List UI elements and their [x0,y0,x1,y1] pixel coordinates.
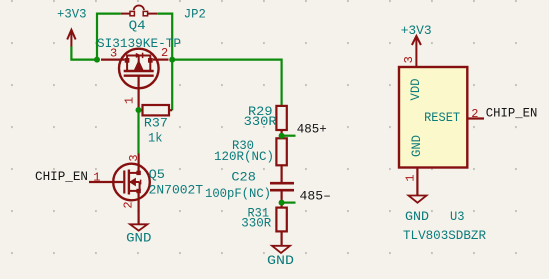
svg-text:CHIP_EN: CHIP_EN [486,105,538,120]
junction A [94,57,100,63]
junction C (Q4 gate node) [136,107,142,113]
svg-text:100pF(NC): 100pF(NC) [205,186,271,201]
substrate bar top [127,56,150,72]
svg-text:+3V3: +3V3 [401,23,432,38]
resistor R31 [276,203,286,246]
junction D (485+ node) [279,133,285,139]
ground U3 [409,196,427,203]
middle stub + N arrow [130,181,140,183]
junction B [169,57,175,63]
svg-text:GND: GND [267,253,294,268]
pin 3 lead [101,58,125,60]
transistor Q5 2N7002T [89,154,150,225]
P arrow mark on top bar [136,53,141,57]
wire junction A up to JP2 left [97,14,121,60]
svg-text:3: 3 [402,56,416,63]
gate lead down [138,76,140,108]
svg-text:VDD: VDD [408,78,423,100]
resistor R29 [276,106,286,136]
svg-text:3: 3 [127,154,141,161]
svg-text:CHIP_EN: CHIP_EN [35,169,88,184]
capacitor C28 [270,183,294,202]
svg-text:485+: 485+ [297,121,327,136]
svg-text:Q5: Q5 [149,167,165,182]
pin 1 gate lead [89,181,123,183]
svg-text:C28: C28 [231,170,256,185]
wire stub 485- [282,202,296,204]
channel bar [128,170,130,195]
jumper JP2 [121,5,158,15]
svg-text:GND: GND [405,209,429,224]
pin 1 lead [416,168,418,196]
pin 2 lead [467,117,484,119]
svg-text:U3: U3 [450,209,465,224]
svg-text:GND: GND [409,135,424,157]
svg-text:330R: 330R [241,215,271,230]
pin 2 lead [153,58,169,60]
wire JP2 right down to junction B [157,14,172,111]
ground under Q5 [130,224,147,230]
gate bar [123,171,125,194]
svg-text:2: 2 [161,46,168,60]
junction E (485- node) [279,200,285,206]
svg-text:JP2: JP2 [184,6,206,21]
svg-text:120R(NC): 120R(NC) [214,149,274,164]
gate bar [124,74,154,76]
svg-text:R37: R37 [144,115,168,130]
power +3V3 right [412,36,421,68]
svg-text:Q4: Q4 [129,18,146,33]
svg-text:RESET: RESET [424,110,460,125]
drain stub [129,172,139,174]
svg-text:485–: 485– [300,189,332,204]
drain lead up [138,154,140,172]
wire gate node down to Q5 drain [137,110,139,154]
svg-text:2: 2 [122,201,136,208]
svg-text:TLV803SDBZR: TLV803SDBZR [403,228,486,243]
svg-text:+3V3: +3V3 [57,7,87,22]
substrate mark [140,180,142,185]
power +3V3 left [67,30,75,47]
svg-text:1k: 1k [148,130,163,145]
svg-text:2N7002T: 2N7002T [149,183,204,198]
wire junction B to middle column [172,60,281,107]
wire stub 485+ [282,135,296,137]
IC U3 TLV803SDBZR [399,67,484,196]
channel bar [124,70,154,72]
middle stub + arrow [138,56,140,63]
source lead down [138,191,140,224]
transistor Q4 SI3139KE-TP [101,49,169,108]
svg-text:330R: 330R [244,114,277,129]
svg-text:2: 2 [471,107,478,121]
svg-text:1: 1 [123,97,137,104]
wire +3V3 to junction A [71,47,97,60]
svg-text:GND: GND [126,230,152,245]
svg-text:3: 3 [110,47,117,61]
source stub [129,190,139,192]
resistor R37 [139,105,173,115]
svg-text:1: 1 [404,174,418,181]
ground mid column [272,246,290,253]
substrate connect [139,182,141,191]
resistor R30 [276,136,286,182]
contact squares [125,58,130,63]
